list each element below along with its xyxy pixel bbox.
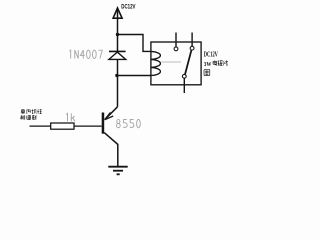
svg-text:3W: 3W <box>204 61 212 68</box>
svg-text:DC12V: DC12V <box>204 51 219 59</box>
svg-text:DC12V: DC12V <box>121 4 136 11</box>
